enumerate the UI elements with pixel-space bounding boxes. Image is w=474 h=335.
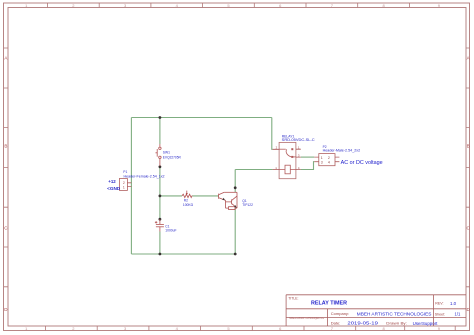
svg-text:REV:: REV: [435,302,443,306]
svg-text:EVQ22705R: EVQ22705R [163,156,182,160]
svg-text:AC or DC voltage: AC or DC voltage [341,160,383,166]
svg-text:1/1: 1/1 [455,312,461,317]
svg-text:Sheet:: Sheet: [435,312,445,316]
svg-text:Header-Female-2.54_1x2: Header-Female-2.54_1x2 [124,174,165,178]
svg-text:A: A [4,55,7,60]
svg-text:B: B [4,143,7,148]
svg-text:TIP122: TIP122 [242,203,253,207]
svg-text:+12: +12 [108,179,116,184]
svg-text:3: 3 [321,160,323,164]
svg-text:SW1: SW1 [163,150,170,154]
svg-text:2: 2 [123,181,125,185]
svg-text:A: A [467,55,470,60]
svg-text:4: 4 [328,160,330,164]
svg-text:Company:: Company: [331,311,349,316]
svg-text:SRD-05VDC-SL-C: SRD-05VDC-SL-C [282,138,316,142]
svg-text:2: 2 [328,156,330,160]
svg-text:1000uF: 1000uF [165,229,176,233]
svg-text:<GND: <GND [107,186,120,191]
svg-text:RELAY TIMER: RELAY TIMER [311,301,347,307]
svg-text:MBEH Artistic Technologies UG: MBEH Artistic Technologies UG [289,316,324,320]
svg-text:MBEH ARTISTIC TECHNOLOGIES: MBEH ARTISTIC TECHNOLOGIES [357,311,432,316]
svg-text:Date:: Date: [331,321,341,326]
svg-text:B: B [467,143,470,148]
svg-text:2019-05-19: 2019-05-19 [347,321,378,326]
svg-text:1.0: 1.0 [450,301,457,306]
svg-text:TITLE:: TITLE: [288,297,298,301]
svg-text:100KΩ: 100KΩ [183,203,194,207]
svg-text:Drawn By:: Drawn By: [386,321,407,326]
svg-text:Header-Male-2.54_2x2: Header-Male-2.54_2x2 [323,149,361,153]
svg-text:1: 1 [321,156,323,160]
svg-text:1: 1 [123,186,125,190]
svg-text:UserSupport: UserSupport [413,321,439,326]
